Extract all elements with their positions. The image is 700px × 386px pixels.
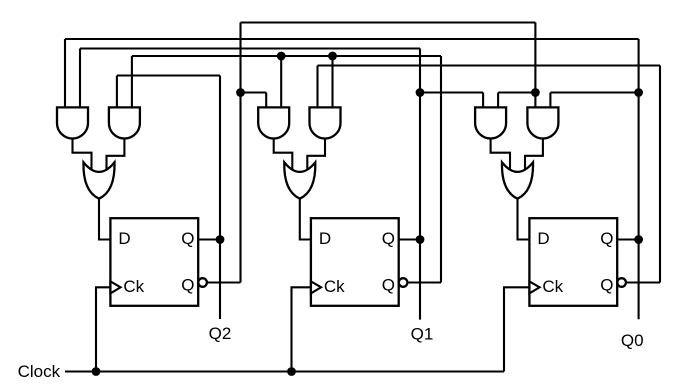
svg-text:Q: Q [382, 276, 395, 295]
svg-text:Q: Q [600, 276, 613, 295]
svg-text:D: D [537, 229, 549, 248]
svg-text:Clock: Clock [18, 362, 61, 381]
svg-text:Q: Q [382, 229, 395, 248]
svg-text:Q1: Q1 [411, 325, 434, 344]
svg-text:Ck: Ck [324, 277, 345, 296]
svg-text:Ck: Ck [123, 277, 144, 296]
svg-text:Q: Q [181, 276, 194, 295]
svg-text:Q: Q [600, 229, 613, 248]
svg-text:Q: Q [181, 229, 194, 248]
svg-text:Q2: Q2 [209, 324, 232, 343]
svg-text:Q0: Q0 [621, 331, 644, 350]
svg-text:D: D [319, 229, 331, 248]
svg-text:D: D [118, 229, 130, 248]
svg-text:Ck: Ck [542, 277, 563, 296]
